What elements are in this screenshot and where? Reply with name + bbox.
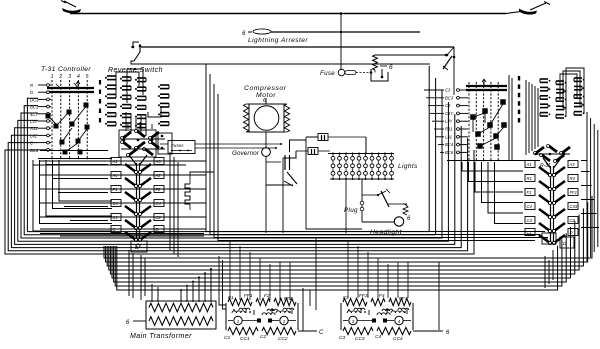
svg-text:A3: A3 [569,162,576,167]
svg-text:C2: C2 [260,334,266,340]
lightning arrester wire [271,31,420,33]
wires feather right bottom drops [545,250,553,288]
svg-text:A3: A3 [155,159,162,164]
svg-text:C4: C4 [113,201,119,206]
svg-text:T-31 Controller: T-31 Controller [41,66,91,73]
headlight [362,204,411,236]
lights lamp bank [328,153,394,181]
svg-text:Fuse: Fuse [320,70,335,77]
right edge vertical wires [587,112,598,262]
arrester coil 6 [373,54,448,71]
reverse switch right dash column [509,75,519,160]
circuit breaker right [443,47,455,70]
line switch group right [534,145,571,163]
trolley pole right [506,2,550,15]
svg-text:Lightning Arrester: Lightning Arrester [248,37,308,44]
svg-text:FF2: FF2 [284,296,293,302]
compressor motor [243,98,289,132]
svg-text:F4: F4 [379,293,385,299]
svg-text:C3: C3 [339,335,345,341]
svg-text:C4Y: C4Y [445,111,454,116]
main switch left [131,42,141,61]
svg-text:Motor: Motor [256,92,276,99]
governor [262,132,271,233]
wire C junction [298,237,324,336]
wire bus left nest [5,66,474,254]
wire verticals right of feather [170,152,178,257]
fuses box [160,141,282,154]
svg-text:CC3: CC3 [355,336,365,342]
reverse switch right contact columns [540,78,584,118]
wire resistor feeds [33,164,186,166]
svg-text:A4: A4 [112,173,119,178]
svg-text:R4: R4 [570,176,576,181]
reverse switch right connector wires [526,80,538,155]
svg-text:D: D [570,230,573,235]
main circuit wire (horizontal feeder) [141,46,454,48]
svg-text:BC3: BC3 [445,95,454,100]
svg-text:C4: C4 [375,334,381,340]
svg-text:F1: F1 [527,190,532,195]
wire right feeder drop [453,57,455,95]
svg-text:R31: R31 [30,126,38,131]
svg-text:2: 2 [282,319,286,324]
svg-text:C: C [319,330,324,336]
wire 6 junction [413,262,450,336]
svg-text:Governor: Governor [232,150,260,157]
resistor bank motors 3 and 4 [339,293,413,342]
svg-text:Fuses: Fuses [171,143,184,148]
unit switch group right [525,158,578,248]
svg-text:FF3: FF3 [359,293,368,299]
svg-text:1: 1 [51,74,54,80]
svg-text:Compressor: Compressor [244,85,287,92]
svg-text:C4: C4 [527,218,533,223]
fuse with label [320,69,388,81]
svg-text:L41: L41 [30,133,37,138]
svg-text:BC4: BC4 [445,142,454,147]
bank feed wires A [230,240,290,300]
trolley wire (roof line) [70,13,506,15]
unit switch group left [111,155,164,252]
svg-text:CC1: CC1 [240,336,250,342]
wire transformer to bank A [219,256,226,305]
reverse switch right n-loops [560,68,584,116]
line switch group left [119,122,172,157]
bank feed wires B [348,240,408,298]
svg-text:3: 3 [68,74,71,80]
reverse switch left drop wires [126,112,146,136]
svg-text:2: 2 [58,74,62,80]
wire bus bottom nest [104,196,592,290]
controller T-31 right block [424,79,540,162]
svg-text:R1: R1 [527,176,532,181]
svg-text:C3: C3 [445,88,451,93]
svg-text:A1: A1 [526,162,532,167]
svg-text:FF4: FF4 [399,296,408,302]
wire from trolley to lightning arrester [340,14,342,71]
resistor bank motors 1 and 2 [224,293,298,342]
svg-text:A2: A2 [155,173,162,178]
main transformer [126,301,216,329]
svg-text:C1: C1 [224,335,230,341]
svg-text:F2: F2 [264,293,270,299]
reverse switch left contact columns [105,76,169,128]
svg-text:Lights: Lights [398,163,418,170]
switch boxes bottom right [542,233,556,244]
svg-text:C4: C4 [527,204,533,209]
svg-text:F1: F1 [228,295,234,301]
svg-text:F2: F2 [156,187,162,192]
svg-text:FF1: FF1 [244,293,253,299]
wire main loop top [131,61,430,64]
svg-text:F1: F1 [113,187,118,192]
reverse switch left n-loop wires [116,69,161,117]
svg-text:L4Y: L4Y [445,119,454,124]
svg-text:4: 4 [77,74,80,80]
controller T-31 left block [30,80,112,160]
svg-text:R: R [30,83,33,88]
svg-text:BC6: BC6 [445,150,454,155]
wire feather tip feeds right [581,161,599,228]
svg-text:C4: C4 [156,201,162,206]
svg-text:D: D [30,90,33,95]
svg-text:FF1: FF1 [570,190,577,195]
wire feather tip feeds left [40,151,108,221]
wire cluster controller right bottom [462,162,523,224]
svg-text:6: 6 [389,64,393,71]
trolley pole left [61,1,81,14]
switch box D left bottom [131,241,147,252]
svg-text:C2: C2 [156,215,162,220]
wires feather left bottom drops [129,250,145,300]
svg-text:A1: A1 [112,159,118,164]
wire band center [40,234,204,237]
svg-text:L4Y: L4Y [30,119,39,124]
fuse box 1 [306,134,366,230]
svg-text:Main Transformer: Main Transformer [130,333,192,340]
resistor left [185,178,190,210]
wire feather right tips to center verticals [40,161,206,229]
svg-text:CC4: CC4 [393,336,403,342]
plug [344,179,364,222]
wire cluster controller left bottom [33,160,112,231]
wire left inner verticals [206,64,545,232]
transformer taps [152,268,212,302]
svg-text:CC2: CC2 [278,336,288,342]
headlight switch [362,189,403,207]
fuse box 2 [283,148,330,234]
wire lamp bank drop [345,179,347,234]
svg-text:C43: C43 [570,204,578,209]
governor contactor [266,140,306,186]
svg-text:C1: C1 [527,230,532,235]
svg-text:C1: C1 [113,215,118,220]
svg-text:5: 5 [86,74,89,80]
